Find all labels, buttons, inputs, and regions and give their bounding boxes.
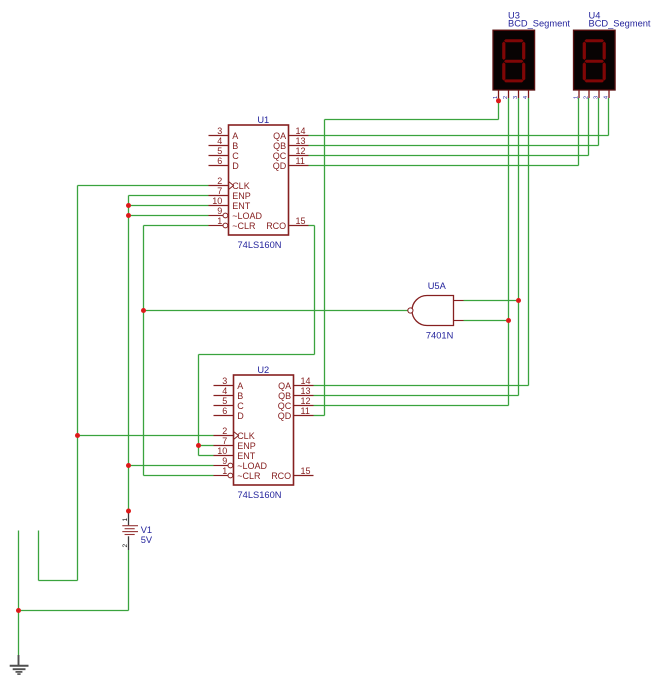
- svg-text:QA: QA: [278, 381, 291, 391]
- svg-text:RCO: RCO: [266, 221, 286, 231]
- svg-text:4: 4: [603, 96, 609, 99]
- svg-text:14: 14: [296, 126, 306, 136]
- svg-text:V1: V1: [141, 525, 152, 535]
- svg-text:13: 13: [301, 386, 311, 396]
- svg-text:BCD_Segment: BCD_Segment: [508, 19, 570, 29]
- svg-text:~CLR: ~CLR: [232, 221, 256, 231]
- svg-text:2: 2: [503, 96, 509, 99]
- svg-text:A: A: [232, 131, 238, 141]
- svg-text:CLK: CLK: [232, 181, 250, 191]
- svg-text:10: 10: [212, 196, 222, 206]
- svg-text:74LS160N: 74LS160N: [238, 490, 282, 500]
- svg-text:B: B: [237, 391, 243, 401]
- svg-text:4: 4: [523, 96, 529, 99]
- svg-text:15: 15: [301, 466, 311, 476]
- svg-text:1: 1: [222, 466, 227, 476]
- svg-text:11: 11: [296, 156, 305, 166]
- svg-text:QD: QD: [273, 161, 287, 171]
- svg-text:5: 5: [217, 146, 222, 156]
- svg-text:~LOAD: ~LOAD: [237, 461, 267, 471]
- svg-text:2: 2: [222, 426, 227, 436]
- svg-text:12: 12: [301, 396, 311, 406]
- svg-text:10: 10: [217, 446, 227, 456]
- svg-text:ENP: ENP: [232, 191, 251, 201]
- svg-text:14: 14: [301, 376, 311, 386]
- svg-text:6: 6: [217, 156, 222, 166]
- svg-text:3: 3: [222, 376, 227, 386]
- svg-text:3: 3: [513, 96, 519, 99]
- svg-text:7: 7: [217, 186, 222, 196]
- svg-text:2: 2: [217, 176, 222, 186]
- svg-text:BCD_Segment: BCD_Segment: [589, 19, 651, 29]
- svg-text:12: 12: [296, 146, 306, 156]
- svg-text:ENT: ENT: [232, 201, 251, 211]
- svg-text:1: 1: [217, 216, 222, 226]
- svg-text:D: D: [237, 411, 244, 421]
- svg-text:9: 9: [217, 206, 222, 216]
- svg-text:7401N: 7401N: [426, 331, 453, 341]
- svg-text:QC: QC: [278, 401, 292, 411]
- svg-text:6: 6: [222, 406, 227, 416]
- svg-text:5: 5: [222, 396, 227, 406]
- svg-text:2: 2: [122, 544, 129, 548]
- svg-text:15: 15: [296, 216, 306, 226]
- svg-text:13: 13: [296, 136, 306, 146]
- svg-text:ENP: ENP: [237, 441, 256, 451]
- svg-text:1: 1: [122, 518, 129, 522]
- svg-text:QA: QA: [273, 131, 286, 141]
- svg-text:4: 4: [217, 136, 222, 146]
- svg-text:1: 1: [573, 96, 579, 99]
- svg-text:U2: U2: [257, 365, 269, 375]
- svg-text:CLK: CLK: [237, 431, 255, 441]
- svg-text:7: 7: [222, 436, 227, 446]
- svg-text:A: A: [237, 381, 243, 391]
- svg-text:B: B: [232, 141, 238, 151]
- svg-text:3: 3: [217, 126, 222, 136]
- svg-text:11: 11: [301, 406, 310, 416]
- svg-text:5V: 5V: [141, 535, 153, 545]
- svg-text:D: D: [232, 161, 239, 171]
- svg-text:4: 4: [222, 386, 227, 396]
- svg-text:~CLR: ~CLR: [237, 471, 261, 481]
- svg-text:QB: QB: [278, 391, 291, 401]
- svg-text:QD: QD: [278, 411, 292, 421]
- svg-text:9: 9: [222, 456, 227, 466]
- svg-text:2: 2: [583, 96, 589, 99]
- svg-text:U1: U1: [257, 115, 269, 125]
- svg-text:~LOAD: ~LOAD: [232, 211, 262, 221]
- svg-text:C: C: [232, 151, 239, 161]
- svg-text:3: 3: [593, 96, 599, 99]
- svg-text:QB: QB: [273, 141, 286, 151]
- svg-text:RCO: RCO: [271, 471, 291, 481]
- svg-text:C: C: [237, 401, 244, 411]
- svg-text:QC: QC: [273, 151, 287, 161]
- svg-text:U5A: U5A: [428, 281, 447, 291]
- svg-text:ENT: ENT: [237, 451, 256, 461]
- svg-text:74LS160N: 74LS160N: [238, 240, 282, 250]
